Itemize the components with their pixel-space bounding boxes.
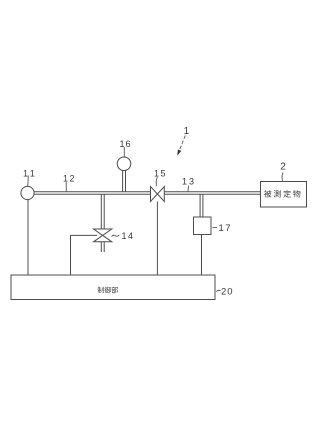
- svg-text:2: 2: [280, 162, 286, 173]
- svg-text:16: 16: [120, 139, 132, 149]
- svg-text:12: 12: [63, 173, 76, 183]
- svg-text:1: 1: [184, 126, 190, 137]
- svg-text:13: 13: [182, 176, 196, 186]
- svg-text:14: 14: [122, 231, 135, 241]
- svg-text:20: 20: [221, 287, 234, 298]
- svg-text:11: 11: [23, 169, 37, 179]
- svg-text:17: 17: [219, 223, 233, 234]
- svg-text:15: 15: [154, 168, 167, 178]
